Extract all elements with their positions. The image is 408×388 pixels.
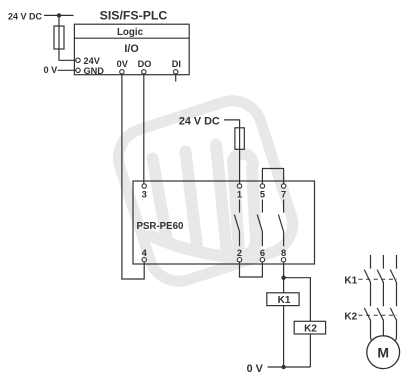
svg-text:2: 2: [237, 248, 242, 258]
terminal DO: [138, 59, 152, 74]
relay box U2 PSR-PE60: [133, 181, 315, 264]
wire coil K2 to 0V rail: [309, 334, 311, 367]
wire 0V rail: [268, 366, 311, 368]
contact K2 pole L3: [390, 308, 396, 321]
wire L1 to motor: [371, 319, 375, 343]
label I/O: [124, 43, 138, 55]
node supply junction: [57, 13, 61, 17]
wire L3 between contacts: [396, 282, 398, 307]
contactor coil K2: [294, 321, 325, 334]
motor M1: [367, 336, 400, 369]
dashed link K1: [359, 278, 398, 280]
terminal 8: [281, 248, 286, 262]
contact K1 pole L3: [390, 270, 396, 283]
svg-text:24 V DC: 24 V DC: [179, 116, 220, 128]
wire phase L3 top stub: [396, 255, 398, 269]
svg-text:Logic: Logic: [117, 27, 144, 38]
svg-text:24 V DC: 24 V DC: [8, 12, 43, 22]
node rail junction: [281, 365, 285, 369]
svg-text:SIS/FS-PLC: SIS/FS-PLC: [100, 9, 168, 23]
wire 0V to GND terminal: [58, 69, 76, 71]
terminal DI: [172, 59, 181, 82]
fuse F2: [235, 128, 244, 150]
svg-text:K2: K2: [344, 312, 357, 323]
terminal 6: [260, 248, 265, 262]
svg-text:6: 6: [260, 248, 265, 258]
svg-text:GND: GND: [84, 66, 105, 76]
PLC box U1 SIS/FS-PLC: [74, 24, 189, 74]
watermark logo: [111, 93, 301, 289]
contactor coil K1: [267, 293, 299, 306]
wire supply stub: [44, 14, 74, 16]
Logic section divider: [74, 37, 189, 39]
wire PLC DO to PSR terminal 3: [143, 74, 145, 184]
svg-text:24V: 24V: [84, 56, 101, 66]
dashed link K2: [359, 314, 398, 316]
terminal 24V: [76, 56, 101, 66]
svg-text:M: M: [377, 344, 389, 360]
wire L1 between contacts: [370, 282, 372, 307]
wire 24VDC through fuse F2 to terminal 1: [224, 120, 240, 184]
wire bridge terminals 5-7: [262, 169, 283, 184]
contact K1 pole L1: [364, 270, 370, 283]
terminal GND: [76, 66, 104, 76]
contact pole 7-8: [278, 200, 283, 247]
svg-text:K1: K1: [344, 276, 357, 287]
label K1 (contacts): [344, 276, 357, 287]
wire from junction through fuse F1 to 24V terminal: [59, 15, 76, 60]
wire coil K1 to 0V rail: [283, 306, 285, 367]
terminal 2: [237, 248, 242, 262]
svg-text:DI: DI: [172, 59, 181, 69]
terminal 1: [237, 184, 242, 200]
terminal 0V: [117, 59, 129, 74]
svg-text:PSR-PE60: PSR-PE60: [137, 221, 184, 232]
svg-text:5: 5: [260, 190, 265, 200]
fuse F1: [54, 26, 64, 49]
svg-text:7: 7: [281, 190, 286, 200]
label Logic: [117, 27, 144, 38]
terminal 4: [142, 248, 148, 262]
wire terminal 8 to coil K1: [283, 262, 285, 293]
label PSR-PE60: [137, 221, 184, 232]
svg-text:1: 1: [237, 190, 242, 200]
label 24 V DC (PLC supply): [8, 12, 43, 22]
svg-text:K1: K1: [278, 295, 291, 306]
svg-text:4: 4: [142, 248, 148, 258]
svg-text:DO: DO: [138, 59, 152, 69]
svg-text:I/O: I/O: [124, 43, 138, 55]
wire L3 to motor: [393, 319, 397, 343]
label 24 V DC (PSR supply): [179, 116, 220, 128]
contact pole 1-2: [234, 200, 239, 247]
contact K2 pole L2: [377, 308, 383, 321]
wire PLC 0V to PSR terminal 4: [122, 74, 144, 279]
label K2 (contacts): [344, 312, 357, 323]
svg-text:0 V: 0 V: [247, 363, 264, 375]
wire branch to coil K2: [284, 278, 311, 322]
label 0 V (left): [44, 65, 59, 75]
svg-text:0 V: 0 V: [44, 65, 59, 75]
contact pole 5-6: [257, 200, 262, 247]
svg-text:8: 8: [281, 248, 286, 258]
wire bridge terminals 2-6: [240, 262, 263, 277]
svg-text:3: 3: [142, 190, 147, 200]
wire phase L2 top stub: [382, 255, 384, 269]
contact K1 pole L2: [377, 270, 383, 283]
wire L2 to motor: [382, 319, 384, 336]
terminal 5: [260, 184, 265, 200]
label 0 V (bottom): [247, 363, 264, 375]
label SIS/FS-PLC: [100, 9, 168, 23]
node junction 8/K2 branch: [281, 276, 285, 280]
terminal 3: [142, 184, 147, 200]
wire L2 between contacts: [382, 282, 384, 307]
wire phase L1 top stub: [370, 255, 372, 269]
terminal 7: [281, 184, 286, 200]
contact K2 pole L1: [364, 308, 370, 321]
svg-text:K2: K2: [304, 324, 317, 335]
svg-text:0V: 0V: [117, 59, 129, 69]
